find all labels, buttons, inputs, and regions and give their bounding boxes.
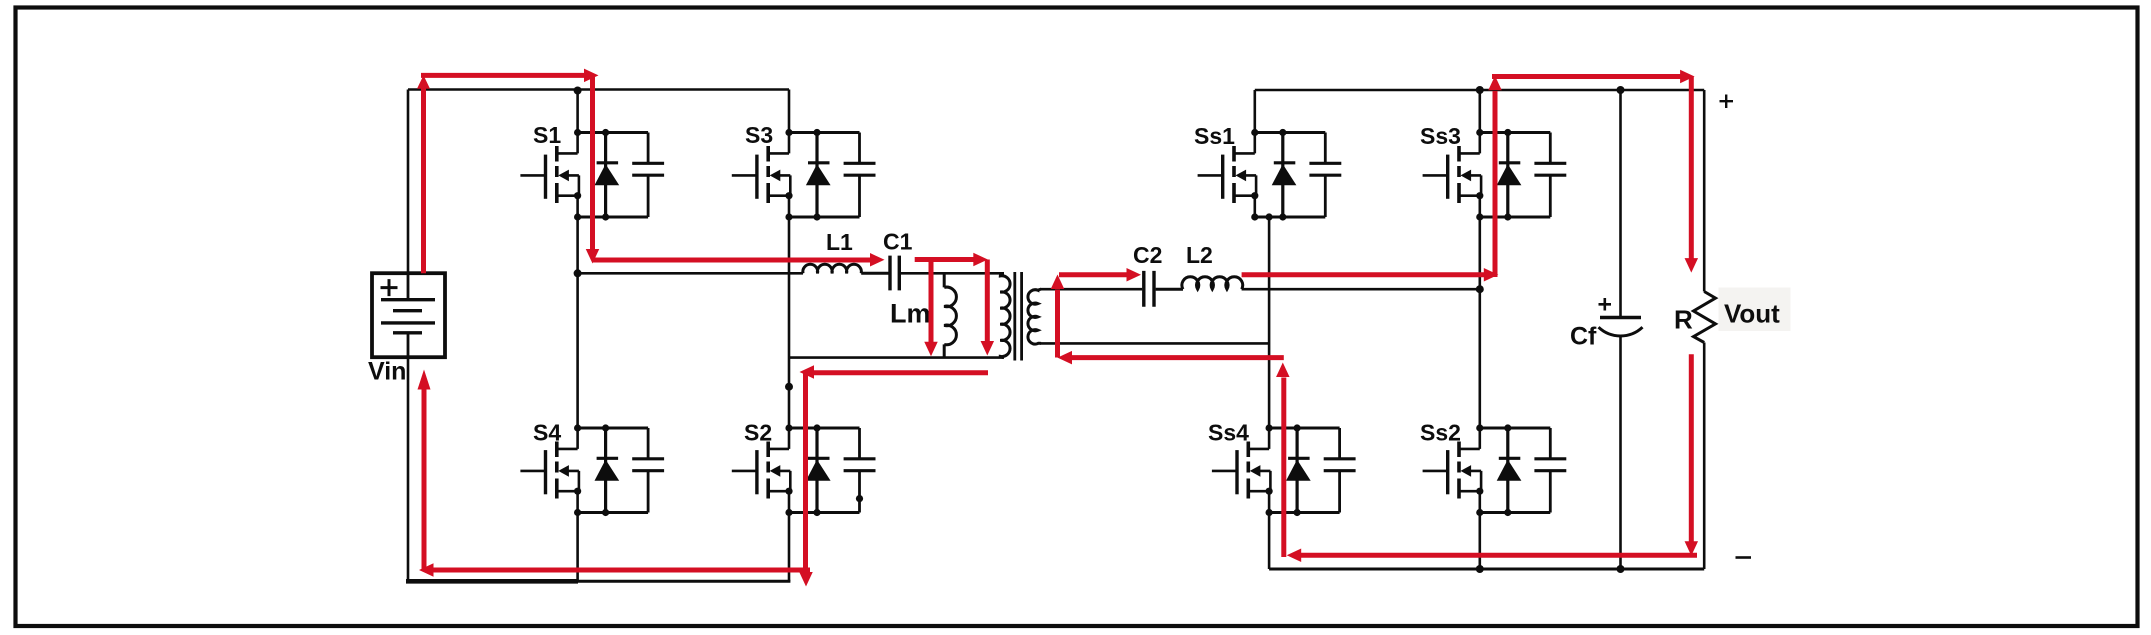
current arrow: back to secondary bottom lead — [1071, 355, 1284, 360]
svg-text:Vout: Vout — [1724, 299, 1780, 329]
wire: leg S3 top stub — [788, 90, 791, 133]
polarity + of Cf — [1599, 298, 1612, 311]
wire: leg Ss4 bottom stub — [1268, 513, 1271, 570]
wire: leg Ss2 bottom stub — [1479, 513, 1482, 570]
svg-text:Vin: Vin — [368, 358, 406, 386]
current arrow: Vin+ up to top rail — [421, 88, 426, 273]
polarity + of Vout — [1720, 95, 1734, 109]
transistor S4 (MOSFET switch cell) — [520, 428, 664, 513]
current arrow: toward C2 — [1059, 272, 1129, 277]
current arrow: after C1 toward transformer — [915, 257, 975, 262]
svg-text:Ss4: Ss4 — [1208, 420, 1249, 446]
wire: C1 to transformer primary — [901, 272, 1004, 275]
current arrow: along bottom rail back to Vin — [432, 568, 810, 573]
svg-text:R: R — [1674, 305, 1693, 335]
current arrow: along bottom rail to Ss4 — [1300, 553, 1697, 558]
svg-text:Ss3: Ss3 — [1420, 123, 1461, 149]
resistor R — [1694, 292, 1716, 343]
wire: leg S2 bottom stub — [788, 513, 791, 582]
wire: leg between Ss3 and Ss2 — [1479, 217, 1482, 428]
current arrow: up through Ss3 — [1493, 91, 1498, 277]
svg-text:Lm: Lm — [890, 299, 931, 329]
wire: leg Ss1 top stub — [1254, 90, 1257, 133]
capacitor Cf — [1600, 316, 1641, 319]
svg-text:Ss2: Ss2 — [1420, 420, 1461, 446]
wire: R to bottom rail — [1703, 343, 1706, 570]
svg-text:S2: S2 — [744, 420, 772, 446]
wire: leg Ss3 top stub — [1479, 90, 1482, 133]
wire: leg S4 bottom stub — [576, 513, 579, 582]
transistor S3 (MOSFET switch cell) — [732, 133, 876, 218]
wire: secondary bottom lead to Ss1/Ss4 leg — [1040, 342, 1269, 345]
inductor L2 — [1182, 277, 1243, 290]
wire: leg between S3 and S2 — [788, 217, 791, 428]
transistor Ss3 (MOSFET switch cell) — [1423, 133, 1567, 218]
transformer T1 primary winding — [1000, 273, 1010, 357]
wire: right bridge bottom rail — [1269, 568, 1704, 571]
wire: left rail battery to bottom — [407, 357, 410, 582]
wire: primary bottom return to S3/S2 leg — [789, 356, 1004, 359]
wire: left rail down to battery — [407, 90, 410, 274]
capacitor Cf branch wire — [1619, 90, 1622, 318]
current arrow: down through primary winding — [985, 260, 990, 342]
battery Vin — [372, 273, 445, 357]
svg-text:Cf: Cf — [1570, 323, 1597, 351]
transistor Ss1 (MOSFET switch cell) — [1198, 133, 1342, 218]
junction: bottom rail / Cf — [1617, 565, 1625, 573]
current arrow: up through Ss4 — [1281, 378, 1286, 558]
current arrow: below R to bottom rail — [1689, 354, 1694, 541]
junction: S2 snubber cap lower node — [856, 495, 863, 502]
current arrow: along top rail to S1 — [421, 73, 586, 78]
transistor S1 (MOSFET switch cell) — [520, 133, 664, 218]
wire: L1 to C1 — [861, 272, 888, 275]
wire: right bridge top rail — [1255, 89, 1704, 92]
svg-text:C2: C2 — [1133, 242, 1162, 268]
svg-text:Ss1: Ss1 — [1194, 123, 1235, 149]
wire: L2 to Ss3/Ss2 leg midpoint — [1242, 288, 1480, 291]
inductor L1 — [803, 264, 862, 273]
junction: top rail / Cf — [1617, 86, 1625, 94]
capacitor C2 — [1144, 271, 1154, 307]
wire: right rail down to R — [1703, 90, 1706, 292]
capacitor C1 — [890, 256, 899, 291]
svg-text:S4: S4 — [533, 420, 561, 446]
inductor Lm (magnetizing) — [944, 273, 956, 357]
current arrow: down to R top — [1689, 77, 1694, 259]
current arrow: along top rail to output — [1492, 74, 1682, 79]
current arrow: down through Lm — [929, 260, 934, 343]
wire: leg between Ss1 and Ss4 — [1268, 217, 1271, 428]
junction: top rail / Ss3 leg — [1476, 86, 1484, 94]
current arrow: node A toward L1/C1 — [593, 258, 872, 263]
current arrow: up into Vin- — [422, 389, 427, 570]
junction: node B on S3/S2 leg — [785, 383, 793, 391]
wire: node A to L1 — [578, 272, 803, 275]
current arrow: after L2 toward Ss3 — [1242, 272, 1486, 277]
wire: secondary top lead to C2 — [1040, 288, 1142, 291]
wire: left bridge top rail — [408, 88, 789, 91]
wire: Cf to bottom rail — [1619, 336, 1622, 569]
current arrow: secondary top lead up — [1055, 290, 1060, 358]
polarity - of Vout — [1736, 556, 1752, 559]
junction: bottom rail / Ss2 leg — [1476, 565, 1484, 573]
svg-text:S1: S1 — [533, 122, 561, 148]
junction: L2 wire / Ss3 leg midpoint — [1476, 285, 1484, 293]
wire: C2 to L2 — [1156, 288, 1183, 291]
svg-text:S3: S3 — [745, 122, 773, 148]
wire: leg between S1 and S4 — [576, 217, 579, 428]
wire: left bridge bottom rail — [578, 580, 790, 583]
current arrow: primary bottom back to S2 leg — [812, 370, 988, 375]
junction: top rail / S1 leg — [574, 87, 582, 95]
current arrow: down through S2 — [803, 371, 808, 572]
transformer T1 core — [1015, 272, 1022, 361]
wire: leg S1 top stub — [576, 90, 579, 133]
transistor S2 (MOSFET switch cell) — [732, 428, 876, 513]
svg-text:L2: L2 — [1186, 242, 1213, 268]
svg-text:C1: C1 — [883, 229, 913, 255]
current arrow: down through S1 — [590, 75, 595, 249]
junction: node A (S1/S4 midpoint) — [574, 269, 582, 277]
transistor Ss4 (MOSFET switch cell) — [1212, 428, 1356, 513]
wire: left bridge bottom rail (thick segment) — [406, 579, 578, 584]
svg-text:L1: L1 — [826, 229, 853, 255]
label Vout — [1719, 288, 1791, 332]
transistor Ss2 (MOSFET switch cell) — [1423, 428, 1567, 513]
transformer T1 secondary winding — [1028, 289, 1041, 344]
